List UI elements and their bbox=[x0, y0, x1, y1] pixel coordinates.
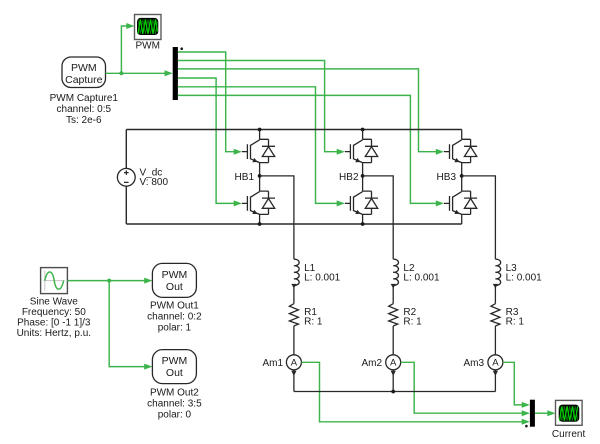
svg-text:PWM: PWM bbox=[71, 62, 97, 74]
ammeter Am1 bbox=[286, 355, 301, 370]
wire branch to PWM Out2 bbox=[109, 281, 152, 370]
svg-text:R: 1: R: 1 bbox=[403, 316, 422, 327]
svg-text:Out: Out bbox=[166, 367, 183, 379]
transistor HB3 lower IGBT bbox=[444, 191, 477, 214]
wire Am1 measurement to mux bbox=[301, 362, 530, 425]
node HB2 midpoint bbox=[361, 174, 365, 178]
svg-text:channel: 0:2: channel: 0:2 bbox=[147, 312, 202, 323]
wire L3 to R3 bbox=[494, 286, 496, 304]
transistor HB3 upper IGBT bbox=[444, 139, 477, 162]
wire Am3 measurement to mux bbox=[503, 362, 530, 408]
wire HB3 phase output bbox=[462, 176, 496, 259]
svg-text:channel: 3:5: channel: 3:5 bbox=[147, 398, 202, 409]
wire L2 to R2 bbox=[392, 286, 394, 304]
mux Mux1 (bar) bbox=[530, 400, 535, 427]
svg-text:Am1: Am1 bbox=[262, 358, 283, 369]
node annotation dot at demux bbox=[180, 47, 183, 50]
svg-text:V: 800: V: 800 bbox=[140, 177, 169, 188]
wire Am2 measurement to mux bbox=[401, 362, 530, 416]
wire gate signal 2 (to HB2 upper) bbox=[178, 61, 345, 155]
svg-text:L: 0.001: L: 0.001 bbox=[403, 272, 440, 283]
ammeter Am3 bbox=[488, 355, 503, 370]
svg-text:Sine Wave: Sine Wave bbox=[30, 297, 78, 308]
wire R2 to Am2 bbox=[392, 326, 394, 355]
block Sine Wave bbox=[41, 268, 68, 294]
wire gate signal 5 (to HB2 lower) bbox=[178, 87, 345, 207]
svg-text:HB3: HB3 bbox=[437, 172, 457, 183]
svg-text:A: A bbox=[492, 358, 499, 369]
wire Am3 to neutral with flow arrow bbox=[494, 370, 496, 392]
svg-text:R: 1: R: 1 bbox=[506, 316, 525, 327]
wire L1 to R1 bbox=[293, 286, 295, 304]
inductor L2 bbox=[393, 259, 398, 285]
wire R1 to Am1 bbox=[293, 326, 295, 355]
svg-text:HB1: HB1 bbox=[235, 172, 255, 183]
wire branch up to PWM scope bbox=[121, 23, 134, 73]
svg-text:Current: Current bbox=[552, 429, 586, 440]
svg-text:Ts: 2e-6: Ts: 2e-6 bbox=[66, 115, 102, 126]
svg-text:Frequency: 50: Frequency: 50 bbox=[22, 307, 86, 318]
wire DC bus top rail bbox=[126, 129, 461, 131]
wire DC bus bottom rail bbox=[126, 223, 461, 225]
svg-text:PWM: PWM bbox=[162, 269, 188, 281]
svg-text:Am3: Am3 bbox=[463, 358, 484, 369]
source V_dc bbox=[117, 168, 135, 186]
svg-text:PWM: PWM bbox=[162, 355, 188, 367]
svg-text:PWM Out1: PWM Out1 bbox=[150, 301, 199, 312]
node junction on sine wire bbox=[107, 279, 111, 283]
svg-text:PWM: PWM bbox=[135, 41, 159, 52]
node HB3 midpoint bbox=[460, 174, 464, 178]
svg-text:Phase: [0 -1 1]/3: Phase: [0 -1 1]/3 bbox=[17, 318, 91, 329]
wire neutral rail bbox=[294, 391, 496, 393]
svg-text:channel: 0:5: channel: 0:5 bbox=[57, 104, 112, 115]
wire HB3 phase leg verticals bbox=[461, 130, 463, 225]
wire HB1 phase leg verticals bbox=[259, 130, 261, 225]
svg-text:PWM Capture1: PWM Capture1 bbox=[50, 93, 119, 104]
svg-text:L: 0.001: L: 0.001 bbox=[506, 272, 543, 283]
transistor HB2 upper IGBT bbox=[345, 139, 378, 162]
svg-text:HB2: HB2 bbox=[339, 172, 359, 183]
wire R3 to Am3 bbox=[494, 326, 496, 355]
resistor R1 bbox=[289, 304, 298, 326]
wire HB2 phase output bbox=[363, 176, 394, 259]
wire gate signal 1 (to HB1 upper) bbox=[178, 52, 242, 155]
wire Sine Wave to PWM Out1 bbox=[67, 278, 152, 284]
wire PWM Capture output to demux bbox=[106, 70, 173, 76]
svg-text:L: 0.001: L: 0.001 bbox=[304, 272, 341, 283]
transistor HB1 upper IGBT bbox=[242, 139, 275, 162]
wire gate signal 4 (to HB1 lower) bbox=[178, 78, 242, 206]
node HB1 midpoint bbox=[258, 174, 262, 178]
node HB1 rail junctions bbox=[258, 128, 262, 132]
svg-text:Out: Out bbox=[166, 281, 183, 293]
svg-text:polar: 1: polar: 1 bbox=[158, 323, 192, 334]
svg-text:Capture: Capture bbox=[65, 74, 103, 86]
wire HB2 phase leg verticals bbox=[362, 130, 364, 225]
block PWM Capture bbox=[62, 57, 106, 88]
svg-text:R: 1: R: 1 bbox=[304, 316, 323, 327]
ammeter Am2 bbox=[386, 355, 401, 370]
transistor HB1 lower IGBT bbox=[242, 191, 275, 214]
wire Am2 to neutral with flow arrow bbox=[392, 370, 394, 392]
block PWM Out1 bbox=[152, 263, 196, 297]
inductor L1 bbox=[294, 259, 299, 285]
wire mux to Current scope bbox=[535, 410, 556, 416]
scope Scope "PWM" bbox=[135, 15, 162, 40]
block PWM Out2 bbox=[152, 350, 196, 384]
scope Scope "Current" bbox=[556, 400, 583, 425]
wire gate signal 3 (to HB3 upper) bbox=[178, 69, 444, 155]
resistor R2 bbox=[389, 304, 398, 326]
svg-text:PWM Out2: PWM Out2 bbox=[150, 387, 199, 398]
node annotation dot at mux bbox=[525, 425, 528, 428]
node HB2 rail junctions bbox=[361, 128, 365, 132]
wire DC bus left rail bbox=[125, 130, 127, 225]
inductor L3 bbox=[495, 259, 500, 285]
svg-text:A: A bbox=[291, 358, 298, 369]
node junction on capture wire bbox=[119, 71, 123, 75]
svg-text:Units: Hertz, p.u.: Units: Hertz, p.u. bbox=[17, 328, 91, 339]
svg-text:Am2: Am2 bbox=[361, 358, 382, 369]
wire gate signal 6 (to HB3 lower) bbox=[178, 95, 444, 206]
svg-text:polar: 0: polar: 0 bbox=[158, 409, 192, 420]
svg-text:A: A bbox=[390, 358, 397, 369]
node neutral junction bbox=[391, 390, 395, 394]
wire HB1 phase output bbox=[260, 176, 294, 259]
transistor HB2 lower IGBT bbox=[345, 191, 378, 214]
demux Demux1 (bar) bbox=[173, 47, 178, 100]
resistor R3 bbox=[491, 304, 500, 326]
wire Am1 to neutral with flow arrow bbox=[293, 370, 295, 392]
